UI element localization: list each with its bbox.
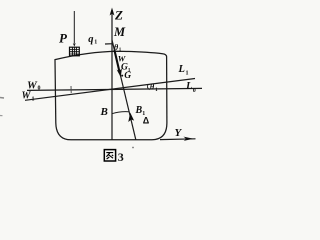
svg-text:G: G (124, 71, 131, 81)
caption glyph 图 (drawn) (104, 150, 115, 161)
Y axis line (160, 138, 196, 141)
svg-text:3: 3 (118, 150, 124, 164)
svg-text:0: 0 (193, 88, 196, 94)
hull outline (55, 51, 167, 140)
weight force arrow W (G to down along incline) (114, 50, 119, 71)
Z axis arrowhead (110, 8, 115, 16)
speck left edge 2 (0, 115, 3, 117)
angle theta1 arc at waterlines (147, 84, 149, 89)
svg-text:1: 1 (32, 97, 35, 103)
Y axis arrowhead (184, 137, 194, 141)
svg-text:1: 1 (186, 71, 189, 77)
svg-text:0: 0 (38, 86, 41, 92)
Z axis line (111, 10, 113, 140)
svg-text:1: 1 (94, 40, 97, 46)
hanger arrowhead (73, 43, 76, 47)
svg-text:Δ: Δ (143, 116, 150, 126)
svg-text:B: B (135, 105, 143, 116)
curve B to B1 (112, 112, 129, 114)
weight P hanger line (73, 11, 75, 44)
svg-text:P: P (59, 31, 68, 46)
buoyancy arrow at B1 (up along incline) (128, 113, 134, 123)
tick at M (105, 43, 114, 45)
svg-text:Z: Z (114, 8, 123, 23)
speck near caption (132, 147, 134, 149)
svg-text:L: L (178, 64, 185, 75)
svg-text:B: B (100, 106, 108, 118)
svg-text:q: q (88, 34, 93, 45)
svg-text:W: W (22, 91, 32, 102)
point G dot (121, 75, 123, 77)
speck left edge (0, 97, 4, 100)
waterline W1L1 (inclined) (25, 79, 195, 101)
svg-text:L: L (185, 81, 192, 92)
svg-text:1: 1 (155, 87, 158, 93)
svg-text:M: M (113, 25, 126, 39)
inclined axis M-B1 line (112, 40, 136, 140)
weight box with hatching (70, 47, 80, 56)
waterline W0L0 (horizontal) (27, 88, 202, 90)
tick on waterline (70, 86, 72, 93)
